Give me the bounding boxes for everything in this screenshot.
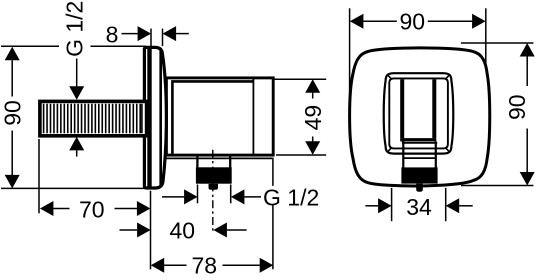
label G 1/2 bottom (outlet thread) — [162, 185, 261, 204]
svg-text:G 1/2: G 1/2 — [263, 185, 319, 211]
dimension 90 right (front view height) — [461, 43, 533, 186]
front view: outlet collar sides — [403, 142, 436, 168]
body lower extra contour line — [166, 157, 272, 159]
front view: corner chamfer ticks — [388, 76, 449, 152]
front view: front face R2 thick sides — [402, 79, 434, 138]
svg-text:70: 70 — [79, 196, 105, 222]
front view: outlet tip — [416, 184, 423, 192]
dimension 8 (plate thickness) — [122, 29, 189, 46]
outlet threaded block — [196, 167, 232, 183]
front view: body base rounded square R1 outer — [384, 73, 454, 153]
svg-text:90: 90 — [504, 94, 530, 120]
plate inner edge line 2 — [159, 49, 162, 187]
plate inner edge line 1 — [147, 48, 151, 187]
svg-text:90: 90 — [400, 9, 426, 35]
front view: outlet threaded block — [401, 167, 437, 183]
dimension 78 (total projection) — [164, 158, 273, 270]
svg-text:G 1/2: G 1/2 — [62, 1, 88, 57]
dimension 34 (outlet width) — [365, 188, 472, 221]
outlet housing (side view) — [197, 156, 230, 168]
dimension 40 (outlet offset) — [120, 229, 247, 231]
dimension 90 top (front view width) — [350, 8, 486, 110]
dimension 90 left (plate height) — [1, 46, 149, 188]
body inner top/left contour — [172, 81, 253, 154]
wall plate escutcheon (side view outline) — [144, 47, 166, 188]
svg-text:40: 40 — [170, 217, 196, 243]
svg-text:49: 49 — [300, 105, 326, 131]
body inner right contour line — [252, 79, 254, 155]
svg-text:8: 8 — [106, 21, 119, 47]
dimension 49 (body height) — [274, 79, 326, 155]
svg-text:34: 34 — [406, 194, 432, 220]
body cuboid (side view) — [166, 78, 273, 155]
front view: outlet collar lines — [402, 142, 437, 144]
svg-text:90: 90 — [0, 100, 26, 126]
outlet tip nub — [209, 184, 219, 190]
label G 1/2 top (pipe thread) — [76, 59, 78, 157]
front view: body base inner contour R1 inner — [389, 78, 448, 148]
svg-text:78: 78 — [192, 252, 218, 278]
outlet centerline (dashed) — [212, 150, 214, 234]
dimension 70 (projection) — [39, 139, 151, 269]
threaded pipe G1/2 (side view) — [40, 101, 147, 135]
front view: front face R2 bottom — [400, 138, 436, 141]
front view: wall plate softsquare — [350, 48, 490, 186]
pipe thread hatch lines — [44, 104, 142, 133]
